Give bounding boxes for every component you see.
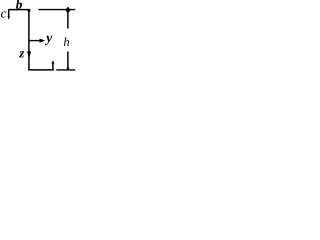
web line (vertical spine) [28, 10, 30, 70]
label b (top flange width) [16, 0, 22, 9]
label y [45, 36, 52, 45]
h arrowhead up [65, 7, 70, 14]
background [0, 0, 76, 74]
bottom flange line [28, 69, 54, 71]
label h [64, 37, 69, 46]
arrowhead c up (right lip) [51, 60, 54, 64]
h dimension line upper segment [67, 10, 69, 29]
y axis line [30, 40, 41, 42]
label z [19, 51, 24, 57]
h arrowhead down [66, 68, 69, 71]
z axis arrowhead (down, on web) [27, 51, 31, 59]
top extension line [38, 9, 75, 11]
right lip line [52, 64, 54, 70]
bottom extension line [56, 69, 75, 71]
label c (lip length) [1, 11, 6, 17]
y axis arrowhead [40, 39, 46, 43]
h dimension line lower segment [67, 52, 69, 70]
top flange top edge [8, 9, 30, 11]
left lip line [8, 10, 10, 17]
arrowhead c down [8, 16, 10, 20]
corner blob at web top [28, 9, 31, 12]
